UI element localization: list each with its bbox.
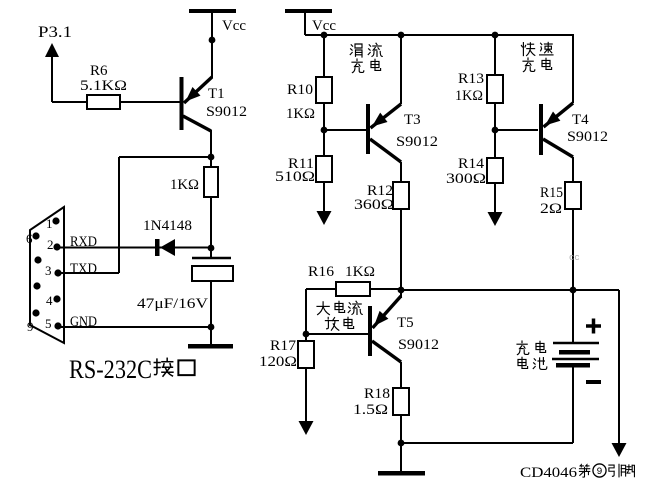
svg-text:360Ω: 360Ω xyxy=(354,197,394,213)
power Vcc right xyxy=(285,9,336,35)
svg-text:1KΩ: 1KΩ xyxy=(455,88,483,104)
connector DB9 RS-232C xyxy=(26,207,64,343)
arrow to CD4046 xyxy=(612,443,627,457)
svg-text:6: 6 xyxy=(26,231,33,246)
resistor R10 1K xyxy=(286,35,332,130)
junction rail/T3 xyxy=(398,32,405,39)
resistor R16 1K xyxy=(306,264,401,334)
junction GND net xyxy=(208,324,215,331)
svg-text:1KΩ: 1KΩ xyxy=(345,264,375,280)
svg-text:T4: T4 xyxy=(572,112,589,128)
resistor 1K (left) xyxy=(170,157,218,248)
wire base of T1 xyxy=(52,101,180,103)
svg-text:1N4148: 1N4148 xyxy=(143,218,192,234)
svg-text:R18: R18 xyxy=(364,386,390,402)
svg-text:R6: R6 xyxy=(90,63,108,79)
svg-text:R10: R10 xyxy=(287,82,313,98)
resistor R6 5.1K xyxy=(80,63,127,109)
ground arrow R11 xyxy=(317,211,332,225)
junction R13/R14/T4 base xyxy=(492,127,499,134)
svg-text:S9012: S9012 xyxy=(567,129,608,145)
pin RXD xyxy=(70,234,97,250)
battery minus xyxy=(586,380,601,384)
svg-text:CD4046: CD4046 xyxy=(520,465,578,481)
ground arrow R14 xyxy=(488,212,503,226)
svg-text:P3.1: P3.1 xyxy=(38,24,72,41)
transistor T1 S9012 xyxy=(180,77,248,131)
svg-text:Vcc: Vcc xyxy=(222,18,246,34)
svg-text:R13: R13 xyxy=(458,71,484,87)
svg-text:RXD: RXD xyxy=(70,234,97,250)
label battery xyxy=(517,341,547,369)
wire Vcc to T1 emitter xyxy=(211,40,213,78)
ground arrow R17 xyxy=(299,421,314,435)
resistor R17 120 xyxy=(259,334,314,422)
battery cells xyxy=(552,290,599,443)
wire T5 emitter xyxy=(400,290,402,298)
svg-text:T3: T3 xyxy=(404,112,421,128)
junction T5 emitter xyxy=(398,287,405,294)
svg-text:5: 5 xyxy=(45,316,52,331)
junction R18/battery-return xyxy=(398,440,405,447)
svg-text:cc: cc xyxy=(569,253,580,263)
resistor R18 1.5 xyxy=(353,362,409,443)
svg-text:47μF/16V: 47μF/16V xyxy=(137,296,208,312)
svg-text:Vcc: Vcc xyxy=(312,18,336,34)
resistor R15 2 xyxy=(540,157,581,290)
node P3.1 xyxy=(38,24,72,102)
wire battery return xyxy=(401,442,573,444)
pin TXD xyxy=(58,261,119,277)
svg-text:RS-232C: RS-232C xyxy=(69,355,152,384)
resistor R14 300 xyxy=(446,130,503,213)
svg-text:T1: T1 xyxy=(208,86,225,102)
svg-text:R14: R14 xyxy=(458,156,485,172)
battery plus xyxy=(586,319,601,334)
transistor T3 S9012 xyxy=(366,104,438,162)
wire T4 base xyxy=(495,129,538,131)
junction rail/R13 xyxy=(492,32,499,39)
wire rail to T3 emitter xyxy=(400,35,402,104)
junction rail/R10 xyxy=(321,32,328,39)
resistor R13 1K xyxy=(455,35,503,130)
diode 1N4148 xyxy=(57,218,211,256)
transistor T5 S9012 xyxy=(368,296,439,362)
junction R16/R17/T5 base xyxy=(303,331,310,338)
svg-text:S9012: S9012 xyxy=(398,337,439,353)
svg-text:120Ω: 120Ω xyxy=(259,354,297,370)
svg-text:1.5Ω: 1.5Ω xyxy=(353,402,388,418)
junction R15/battery/output xyxy=(570,287,577,294)
watermark mark xyxy=(569,253,580,263)
svg-text:R17: R17 xyxy=(270,338,297,354)
svg-text:2Ω: 2Ω xyxy=(540,201,562,217)
svg-text:1: 1 xyxy=(46,216,53,231)
junction T1/1K/TXD-net xyxy=(208,154,215,161)
svg-text:510Ω: 510Ω xyxy=(275,169,315,185)
wire T3 base xyxy=(324,129,366,131)
capacitor 47uF/16V xyxy=(137,248,233,327)
label fast charge xyxy=(521,42,553,71)
svg-text:R15: R15 xyxy=(540,185,563,201)
wire output net xyxy=(401,290,619,445)
wire rail corner to T4 emitter xyxy=(572,35,574,103)
ground (RS-232) xyxy=(188,327,233,349)
resistor R11 510 xyxy=(275,130,332,212)
svg-text:2: 2 xyxy=(47,237,54,252)
pin GND xyxy=(58,314,211,330)
svg-text:S9012: S9012 xyxy=(396,134,438,150)
wire top rail xyxy=(305,34,574,36)
svg-text:5.1KΩ: 5.1KΩ xyxy=(80,78,127,94)
svg-text:9: 9 xyxy=(27,319,34,334)
label RS-232C interface xyxy=(69,355,195,384)
wire to TXD net xyxy=(119,157,211,273)
junction Vcc-T1 xyxy=(209,37,216,44)
svg-text:300Ω: 300Ω xyxy=(446,171,486,187)
power Vcc left xyxy=(189,9,246,42)
label trickle charge xyxy=(350,43,382,72)
svg-text:S9012: S9012 xyxy=(206,104,247,120)
svg-text:4: 4 xyxy=(46,293,53,308)
svg-text:R16: R16 xyxy=(308,264,335,280)
resistor R12 360 xyxy=(354,162,409,290)
junction R10/R11/T3 base xyxy=(321,127,328,134)
ground (main) xyxy=(378,443,425,476)
svg-text:1KΩ: 1KΩ xyxy=(286,106,315,122)
label high-current discharge xyxy=(317,301,362,330)
wire T5 base xyxy=(306,333,368,335)
wire T1 collector down xyxy=(210,130,212,158)
svg-text:T5: T5 xyxy=(397,315,414,331)
transistor T4 S9012 xyxy=(539,103,608,157)
svg-text:3: 3 xyxy=(45,263,52,278)
label CD4046 pin 9 xyxy=(520,464,634,481)
junction diode/cap xyxy=(208,245,215,252)
svg-text:1KΩ: 1KΩ xyxy=(170,177,199,193)
svg-text:TXD: TXD xyxy=(70,261,97,277)
